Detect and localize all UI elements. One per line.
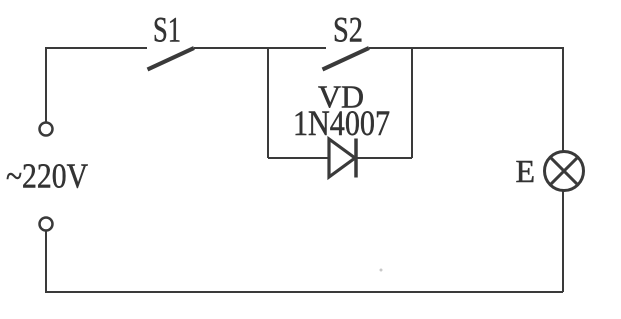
svg-text:E: E [516,153,536,189]
svg-text:~220V: ~220V [6,157,88,196]
svg-text:1N4007: 1N4007 [293,103,390,143]
svg-text:S2: S2 [333,10,363,50]
svg-text:S1: S1 [153,10,181,50]
